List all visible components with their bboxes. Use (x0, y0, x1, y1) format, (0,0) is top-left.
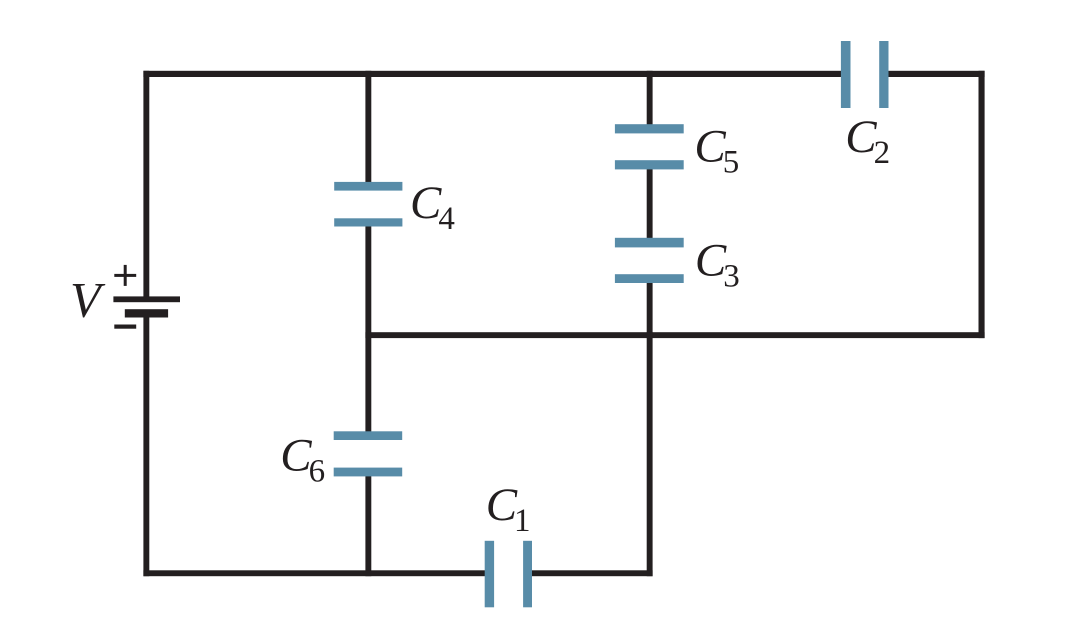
wire middle horizontal segment (365, 332, 984, 338)
capacitor C2 left plate (841, 41, 851, 108)
wire right vertical segment (979, 71, 985, 338)
wire branch A lower segment (365, 470, 371, 576)
svg-text:C2: C2 (845, 111, 890, 171)
wire branch A middle segment (365, 220, 371, 435)
wire left vertical lower segment (143, 315, 149, 576)
wire bottom-left horizontal segment (143, 570, 488, 576)
capacitor C5 bottom plate (615, 160, 684, 169)
capacitor C4 top plate (334, 182, 402, 191)
wire top-right horizontal segment (886, 71, 985, 77)
svg-text:C1: C1 (486, 479, 531, 539)
battery V long top plate (113, 296, 180, 302)
capacitor C2 right plate (879, 41, 888, 108)
capacitor C1 right plate (523, 541, 532, 608)
wire top-left horizontal segment (143, 71, 843, 77)
wire branch B middle segment (647, 165, 653, 242)
svg-text:C3: C3 (695, 235, 740, 295)
capacitor C6 bottom plate (334, 468, 403, 477)
wire branch B upper segment (647, 71, 653, 128)
svg-text:C6: C6 (280, 430, 325, 490)
capacitor C4 bottom plate (334, 218, 402, 226)
capacitor C3 top plate (615, 238, 684, 248)
capacitor C5 top plate (615, 124, 684, 133)
wire left vertical upper segment (143, 71, 149, 298)
svg-text:V: V (70, 272, 106, 328)
battery V short bottom plate (125, 309, 168, 317)
battery plus sign (114, 265, 136, 286)
svg-text:C5: C5 (694, 121, 739, 181)
wire branch A upper segment (365, 71, 371, 186)
capacitor C6 top plate (334, 431, 403, 440)
wire bottom-right horizontal segment (529, 570, 653, 576)
node junction middle wire with branch B (647, 332, 653, 338)
capacitor C3 bottom plate (615, 274, 684, 283)
capacitor C1 left plate (485, 541, 494, 608)
svg-text:C4: C4 (410, 177, 455, 237)
wire branch B lower segment (647, 278, 653, 576)
battery minus sign (114, 325, 136, 329)
